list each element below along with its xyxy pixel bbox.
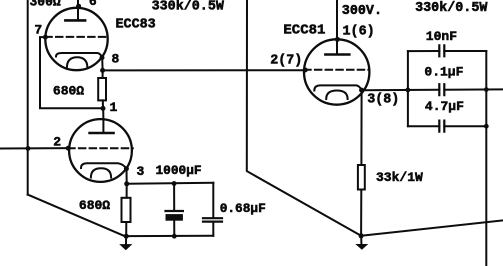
svg-text:1: 1 bbox=[110, 100, 118, 115]
wire: bottom bus bbox=[126, 235, 213, 237]
wire: grid pin 2 feed from left edge bbox=[0, 147, 68, 149]
node: cathode pin 3(8) junction bbox=[359, 88, 364, 93]
wire: cathode down to 33k resistor bbox=[360, 90, 362, 165]
svg-text:330k/0.5W: 330k/0.5W bbox=[415, 1, 488, 16]
svg-text:1000µF: 1000µF bbox=[156, 163, 202, 178]
heater dome V1a bbox=[67, 57, 88, 68]
capacitor 10nF plates bbox=[439, 45, 444, 56]
wire: left border vertical bbox=[27, 0, 29, 195]
wire: pin7 feedback loop to pin1 node bbox=[40, 37, 103, 108]
tube V1a ECC83 envelope bbox=[45, 8, 107, 70]
wire: cathode bus to right edge bbox=[362, 88, 503, 91]
svg-text:7: 7 bbox=[34, 23, 42, 38]
ground (left) stub bbox=[125, 236, 127, 244]
wire: left diagonal to ground junction bbox=[28, 195, 125, 237]
capacitor bank right rail (continues to bottom edge) bbox=[485, 51, 487, 266]
grid V2 (dashed) bbox=[304, 69, 369, 71]
node: 1000uF top junction bbox=[172, 181, 177, 186]
svg-text:2(7): 2(7) bbox=[270, 53, 302, 68]
wire: right diagonal from ground to right edge bbox=[361, 220, 503, 235]
node: bus x left rail bbox=[406, 88, 411, 93]
cathode V1a bbox=[56, 53, 102, 58]
wire: cathode down to pin 8 node bbox=[101, 58, 103, 71]
wire: bottom cap row bbox=[408, 125, 486, 127]
capacitor 1000uF body bbox=[166, 210, 183, 212]
resistor 680 ohm (V1a cathode) bbox=[98, 78, 106, 100]
wire: resistor stubs bbox=[102, 70, 104, 108]
resistor 680 ohm (V1b cathode) bbox=[122, 198, 131, 222]
svg-text:330k/0.5W: 330k/0.5W bbox=[152, 0, 225, 15]
capacitor 1000uF electrolytic : top stub bbox=[173, 183, 175, 210]
wire: top bus to 0.68uF corner bbox=[127, 183, 214, 184]
heater dome V1b bbox=[91, 168, 111, 177]
capacitor 0.68uF bottom wire to bus corner bbox=[212, 223, 214, 236]
node: right ground junction bbox=[359, 233, 364, 238]
node: bus x right rail bbox=[484, 87, 489, 92]
svg-text:ECC83: ECC83 bbox=[116, 17, 156, 32]
node: left ground junction bbox=[124, 234, 129, 239]
svg-text:3: 3 bbox=[137, 164, 145, 179]
node: pin 2 grid junction bbox=[66, 146, 71, 151]
heater dome V2 bbox=[326, 91, 347, 100]
node: pin 1 junction bbox=[101, 106, 106, 111]
svg-text:33k/1W: 33k/1W bbox=[376, 170, 423, 185]
anode plate V1a bbox=[65, 19, 85, 22]
node: pin3 bus junction bbox=[124, 181, 129, 186]
svg-text:300V.: 300V. bbox=[342, 4, 382, 19]
svg-text:1(6): 1(6) bbox=[343, 25, 375, 40]
node: 1000uF bottom junction bbox=[172, 234, 177, 239]
ground (right) stub bbox=[360, 236, 362, 244]
capacitor 0.1uF plates (on cathode bus) bbox=[439, 84, 444, 95]
wire: long vertical (cropped at top) with diagonal to right ground bbox=[247, 0, 361, 236]
node: cathode exit pin bbox=[100, 55, 105, 60]
tube V2 ECC81 envelope bbox=[304, 39, 369, 104]
cathode V2 bbox=[314, 85, 361, 90]
wire: pin3 down to bus bbox=[126, 169, 128, 184]
wire: top cap row bbox=[408, 50, 486, 52]
node: junction of grid-2 wire on left vertical bbox=[26, 146, 31, 151]
capacitor 0.68uF plates bbox=[203, 218, 222, 221]
wire: 33k to ground junction bbox=[360, 190, 362, 236]
svg-text:10nF: 10nF bbox=[426, 29, 457, 44]
wire: V2 anode feed from top edge (300V) bbox=[336, 0, 338, 53]
svg-text:4.7µF: 4.7µF bbox=[425, 99, 464, 114]
wire: pin8 to ECC81 grid bbox=[103, 69, 306, 71]
capacitor 4.7uF plates bbox=[439, 121, 444, 132]
resistor 33k/1W bbox=[358, 165, 365, 190]
node: pin 7 grid junction bbox=[43, 35, 48, 40]
capacitor bank left rail bbox=[407, 51, 409, 126]
capacitor 1000uF bottom stub bbox=[173, 221, 175, 237]
ground (left) arrow bbox=[119, 244, 132, 250]
node: bottom cap row x right rail bbox=[484, 124, 489, 129]
svg-text:680Ω: 680Ω bbox=[79, 198, 110, 213]
svg-text:ECC81: ECC81 bbox=[283, 22, 325, 38]
grid V1b (dashed) bbox=[68, 147, 133, 149]
tube V1b envelope bbox=[69, 119, 132, 182]
cathode V1b bbox=[81, 163, 126, 169]
svg-text:2: 2 bbox=[53, 135, 61, 150]
wire: V1b anode inside bbox=[102, 120, 104, 132]
capacitor 0.68uF : top wire bbox=[212, 183, 214, 218]
node: anode wire at envelope top bbox=[335, 37, 340, 42]
wire: resistor stubs bbox=[125, 184, 128, 236]
anode plate V2 bbox=[325, 53, 349, 56]
anode plate V1b bbox=[90, 132, 114, 135]
wire: V1a anode feed from top edge bbox=[77, 0, 79, 19]
svg-text:0.68µF: 0.68µF bbox=[220, 201, 266, 216]
ground (right) arrow bbox=[355, 244, 368, 250]
node: pin 3 cathode junction bbox=[124, 166, 129, 171]
node: grid pin 2(7) junction bbox=[303, 68, 308, 73]
svg-text:0.1µF: 0.1µF bbox=[424, 65, 463, 80]
svg-text:6: 6 bbox=[89, 0, 97, 9]
wire: pin1 down to V1b anode bbox=[102, 108, 104, 119]
svg-text:3(8): 3(8) bbox=[367, 93, 399, 108]
svg-text:8: 8 bbox=[112, 51, 120, 66]
grid V1a (dashed) bbox=[45, 36, 107, 38]
svg-text:680Ω: 680Ω bbox=[53, 83, 84, 98]
svg-text:300Ω: 300Ω bbox=[30, 0, 61, 9]
node: anode wire at envelope top bbox=[76, 4, 81, 9]
node: pin 8 junction bbox=[100, 68, 105, 73]
